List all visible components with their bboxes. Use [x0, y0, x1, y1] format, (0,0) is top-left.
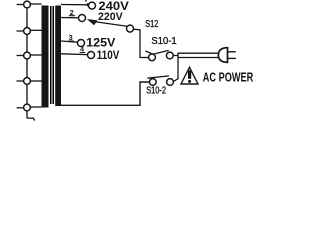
switch S12 common circle: [127, 25, 134, 32]
wire secondary bottom to S10-2: [58, 82, 149, 105]
wire S10-1 to cord junction: [173, 55, 178, 57]
transformer T1 core line 1: [50, 6, 52, 104]
primary terminal 3 circle: [17, 52, 42, 59]
secondary tap 1 lead wire: [61, 4, 89, 6]
switch S10-1 blade: [145, 50, 168, 54]
svg-text:AC POWER: AC POWER: [203, 71, 253, 85]
transformer T1 core line 2: [53, 6, 55, 104]
terminal 125V circle: [78, 40, 85, 47]
switch S10-1 right contact circle: [166, 52, 173, 59]
svg-text:S10-2: S10-2: [146, 86, 166, 97]
cord wire bottom: [178, 57, 220, 59]
AC plug P1 body: [218, 48, 227, 63]
switch S10-2 right contact circle: [167, 79, 174, 86]
svg-text:S10-1: S10-1: [151, 36, 177, 47]
wire S12 to S10-1: [133, 29, 148, 57]
terminal 110V circle: [88, 52, 95, 59]
terminal 220V circle: [79, 15, 86, 22]
pin 1 tick: [85, 0, 87, 2]
transformer T1 primary winding bar: [42, 6, 49, 108]
svg-text:S12: S12: [145, 19, 158, 30]
switch S10-2 blade: [147, 76, 169, 78]
AC plug prong 2: [228, 57, 236, 59]
secondary tap 3 lead wire: [61, 41, 78, 42]
warning triangle: [181, 67, 198, 84]
primary terminal 1 circle: [17, 1, 42, 8]
secondary tap 4 lead wire: [61, 53, 87, 56]
svg-text:110V: 110V: [97, 48, 120, 62]
switch S10-1 left contact circle: [149, 54, 156, 61]
AC plug prong 1: [228, 51, 236, 53]
secondary tap 2 lead wire: [61, 17, 79, 19]
cord junction vertical: [177, 53, 179, 58]
wire cord to S10-2: [173, 58, 178, 82]
svg-text:220V: 220V: [98, 11, 123, 23]
primary terminal bus wire: [27, 5, 35, 121]
switch S10-2 left contact circle: [149, 79, 156, 86]
pin number 4: [80, 45, 86, 54]
transformer T1 secondary winding bar: [55, 6, 61, 107]
pin number 2: [69, 8, 75, 17]
primary terminal 5 circle: [17, 104, 42, 111]
secondary tap 1 junction dot: [87, 3, 90, 6]
cord wire top: [178, 52, 220, 54]
pin number 3: [68, 33, 74, 42]
primary terminal 4 circle: [17, 78, 42, 85]
primary terminal 2 circle: [17, 28, 42, 35]
terminal 240V circle: [89, 2, 96, 9]
switch S12 wiper arrow: [87, 19, 128, 26]
